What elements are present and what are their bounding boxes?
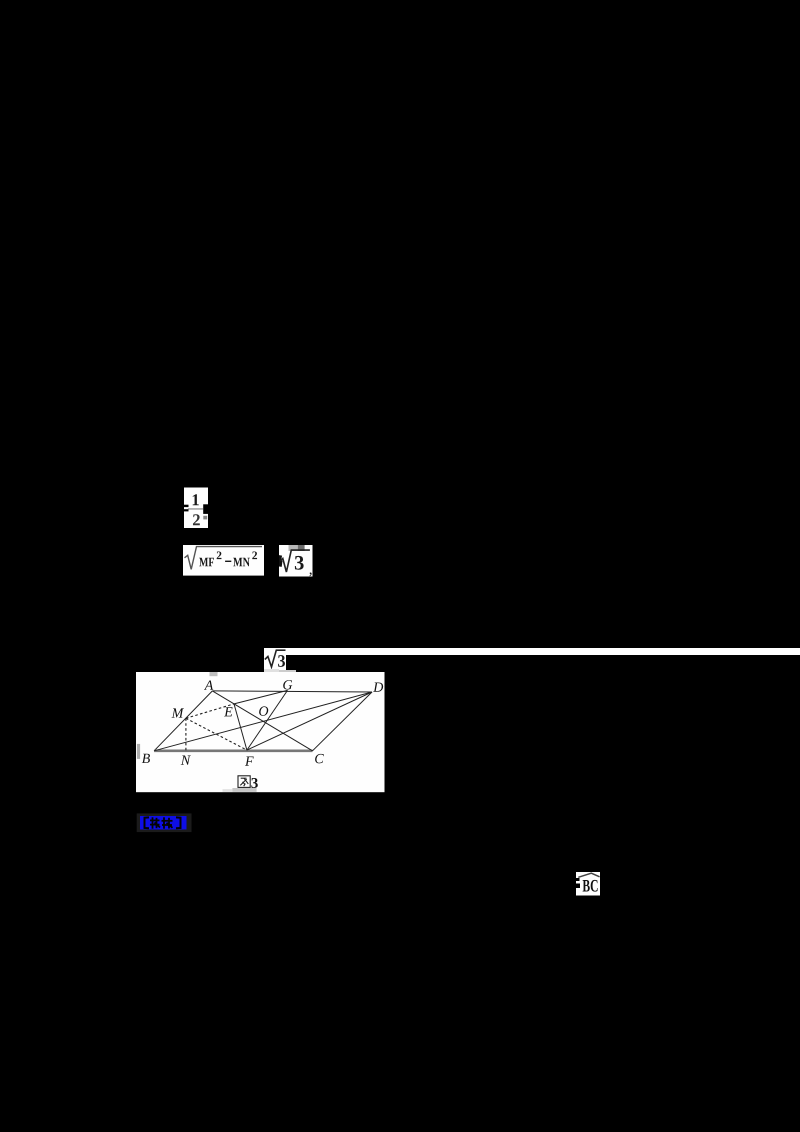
sqrt3 patch above figure (264, 648, 286, 670)
segment GF (246, 690, 287, 750)
dashed ME (185, 703, 233, 717)
label D (373, 682, 383, 691)
clipped glyph at left edge (279, 555, 283, 567)
diagonal BD through O (154, 692, 372, 751)
side AB (154, 690, 212, 750)
superscript 2 (252, 551, 257, 559)
clipped equals marks at left edge (576, 878, 580, 881)
label N (180, 755, 190, 764)
sqrt3 comma patch (279, 545, 313, 577)
dashed MF (185, 718, 246, 750)
caption tu3 gray strip (232, 788, 256, 792)
long white bar (286, 648, 800, 656)
caption 3 (251, 778, 257, 788)
label G (283, 680, 292, 689)
superscript 2 (217, 551, 222, 559)
fraction bar (188, 508, 203, 509)
label E (224, 707, 232, 716)
label B (141, 753, 149, 762)
gray smudge above A (209, 672, 217, 676)
clipped equals sign at left edge (184, 505, 189, 507)
gray sliver left of B (136, 743, 139, 758)
BC arc box (576, 872, 600, 896)
label F (244, 756, 253, 765)
side BC thick (154, 749, 312, 752)
blue jiexi highlight (136, 813, 193, 833)
comma (309, 572, 311, 576)
glyph xi (162, 817, 173, 828)
radical sign of sqrt3 (280, 550, 309, 572)
segment EG (234, 690, 288, 704)
blue rectangle (140, 816, 187, 830)
gray smudges between sqrt3 and figure box (264, 669, 279, 672)
diagonal AC through E and O (212, 690, 312, 750)
label A (203, 680, 212, 689)
dashed MN (184, 718, 186, 751)
side AD (212, 690, 372, 691)
label C (315, 754, 324, 763)
gray artifact blocks (288, 545, 297, 551)
left bracket (145, 817, 150, 828)
MN (233, 557, 250, 566)
segment EF (234, 703, 247, 749)
figure white box (136, 672, 385, 793)
clipped comma blob at right edge (203, 504, 208, 514)
numerator 1 (193, 494, 199, 505)
caption glyph tu (box) (238, 775, 250, 787)
segment FD (246, 692, 371, 750)
radical formula sqrt(MF^2-MN^2) patch (183, 545, 264, 576)
radical sign (185, 546, 263, 569)
fraction 1/2 patch (184, 487, 209, 528)
3 (294, 555, 303, 569)
3 (278, 655, 285, 667)
radical sign (265, 650, 286, 667)
BC letters (583, 880, 598, 892)
dark gray frame (137, 813, 192, 832)
right bracket (176, 817, 181, 828)
side DC (312, 692, 372, 751)
denominator 2 (193, 514, 200, 525)
minus (225, 560, 231, 561)
label M (171, 708, 183, 717)
glyph jie (150, 817, 160, 828)
label O (259, 706, 268, 715)
arc hat over BC (578, 873, 599, 877)
MF (199, 557, 214, 566)
